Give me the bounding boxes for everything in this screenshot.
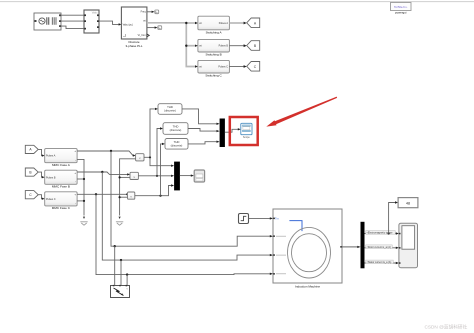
- svg-text:<Stator current is_a (A): <Stator current is_a (A): [367, 261, 392, 264]
- wire tag C to MMC C: [38, 195, 42, 199]
- block Switching C: [198, 60, 230, 73]
- scope3: [399, 223, 418, 268]
- junction breaker tap C: [126, 273, 128, 275]
- wire tag A to MMC A: [38, 149, 42, 155]
- svg-text:Ts=50e-6 s.: Ts=50e-6 s.: [394, 5, 408, 9]
- svg-text:Pulses B: Pulses B: [219, 45, 229, 48]
- wire step to machine Tm: [249, 217, 271, 219]
- junction: [149, 156, 151, 158]
- svg-text:MMC Fase B: MMC Fase B: [52, 185, 70, 189]
- breaker block: [111, 285, 130, 298]
- junction: [119, 176, 121, 178]
- op block Discrete 3-phase PLL U1: [121, 7, 149, 39]
- wire VM A out: [144, 157, 171, 165]
- junction: [159, 195, 161, 197]
- wire MMC A- to ground rail: [77, 159, 84, 215]
- svg-text:wt: wt: [199, 45, 202, 48]
- wire machine out to bus selector: [342, 246, 358, 248]
- wire phase B down and to machine: [102, 172, 270, 260]
- scope2: [194, 170, 204, 182]
- wire VM C out: [135, 186, 172, 196]
- wire VM B minus: [120, 176, 130, 178]
- display block: [398, 198, 418, 208]
- svg-text:<Rotor current is_a (A): <Rotor current is_a (A): [367, 246, 391, 249]
- wire to display: [389, 203, 396, 234]
- svg-text:Pulses B: Pulses B: [46, 176, 56, 179]
- svg-text:-: -: [75, 180, 76, 184]
- svg-text:Switching C: Switching C: [205, 74, 222, 78]
- wire MMC B- join rail: [77, 178, 84, 180]
- from tag C: [25, 191, 38, 199]
- svg-text:wt: wt: [199, 22, 202, 25]
- wire VM A up to THD1: [150, 109, 155, 157]
- wire breaker tap B: [120, 260, 122, 285]
- svg-text:Pulses C: Pulses C: [46, 198, 56, 201]
- wire tag B to MMC B: [38, 172, 42, 177]
- svg-text:(discrete): (discrete): [171, 143, 183, 147]
- block powergui: [391, 3, 412, 11]
- svg-text:Switching A: Switching A: [206, 31, 223, 35]
- svg-text:CSDN @蓝胡科研社: CSDN @蓝胡科研社: [425, 323, 468, 330]
- svg-text:Induction Machine: Induction Machine: [295, 285, 320, 289]
- svg-text:-: -: [75, 158, 76, 162]
- svg-text:Pulses C: Pulses C: [218, 66, 228, 69]
- svg-text:powergui: powergui: [395, 11, 407, 15]
- wire PLL Freq to terminator: [147, 11, 152, 13]
- mux Vabc measurement block: [84, 10, 99, 33]
- wire mux2 to scope2: [180, 175, 191, 177]
- signal label stator current: [366, 260, 394, 264]
- block Induction Machine: [273, 209, 342, 283]
- junction phase A: [110, 150, 112, 152]
- wire Switching B to goto tag: [229, 45, 244, 47]
- voltage measurement VM B: [130, 172, 138, 179]
- svg-text:Tm: Tm: [275, 216, 279, 220]
- THD block 2: [163, 123, 188, 135]
- top window edge line: [0, 1, 474, 3]
- wire source out1 to mux: [61, 14, 84, 16]
- wire bus out3 stator current: [365, 262, 397, 264]
- wire VM B up to THD2: [157, 129, 160, 176]
- block MMC Fase B: [45, 170, 77, 184]
- THD block 3: [165, 139, 188, 150]
- block MMC Fase A: [45, 149, 77, 163]
- wire phase A down and to machine: [111, 151, 270, 246]
- junction phase C: [95, 193, 97, 195]
- junction B- rail: [83, 178, 85, 180]
- wire phase C down and to machine: [96, 194, 270, 274]
- svg-text:3-phase PLL: 3-phase PLL: [125, 44, 142, 48]
- wire phase B from MMC B+: [77, 172, 127, 174]
- svg-text:(discrete): (discrete): [164, 109, 176, 113]
- svg-text:(discrete): (discrete): [170, 128, 182, 132]
- junction phase B: [101, 171, 103, 173]
- junction: [185, 45, 187, 47]
- svg-text:Freq: Freq: [141, 11, 147, 14]
- from tag A: [25, 145, 38, 153]
- wire THD3 to mux1: [188, 142, 217, 144]
- red arrow annotation: [266, 97, 337, 127]
- junction: [185, 22, 187, 24]
- wire phase C from MMC C+: [77, 193, 126, 195]
- voltage measurement VM A: [136, 154, 144, 161]
- svg-text:Scope: Scope: [243, 136, 250, 139]
- wire PLL wt highlighted: [147, 22, 186, 24]
- wire MMC C- join rail: [77, 200, 84, 202]
- wire phase A from MMC A+: [77, 151, 133, 156]
- wire VM C up to THD3: [161, 144, 163, 196]
- svg-text:-: -: [75, 201, 76, 205]
- red highlight box: [230, 117, 258, 145]
- wire breaker tap C: [126, 275, 128, 286]
- wire VM B out: [138, 175, 171, 177]
- THD block 1: [158, 104, 182, 115]
- junction display tap: [388, 232, 390, 234]
- wire Switching A to goto tag: [229, 22, 244, 24]
- wire THD1 to mux1: [182, 109, 217, 124]
- from tag B: [25, 168, 38, 176]
- step block: [239, 214, 249, 224]
- svg-text:Vabc: Vabc: [92, 10, 98, 14]
- wire wt bus vertical to switching blocks: [186, 23, 195, 67]
- wire PLL out3 to terminator: [147, 27, 155, 29]
- ground G2: [116, 217, 123, 226]
- wire source out2 to mux: [61, 20, 84, 22]
- wire THD2 to mux1: [188, 129, 217, 132]
- wire mux1 to scope: [225, 129, 238, 132]
- terminator T2: [158, 26, 162, 30]
- wire VM C minus: [120, 196, 128, 198]
- block three-phase source: [34, 13, 61, 30]
- svg-text:Vabc (pu): Vabc (pu): [123, 23, 133, 26]
- block MMC Fase C: [45, 192, 77, 206]
- junction: [119, 196, 121, 198]
- svg-text:Vt_Con: Vt_Con: [138, 34, 147, 37]
- svg-text:Pulses A: Pulses A: [219, 22, 229, 25]
- mux2 bar: [174, 162, 180, 191]
- goto tag A: [247, 18, 260, 28]
- wire bus out2 rotor current: [365, 247, 397, 249]
- svg-text:Switching B: Switching B: [206, 53, 222, 57]
- block Switching A: [198, 16, 230, 30]
- junction C- rail: [83, 200, 85, 202]
- block Switching B: [198, 39, 230, 52]
- signal label torque: [366, 231, 396, 235]
- junction breaker tap B: [120, 259, 122, 261]
- junction: [156, 175, 158, 177]
- voltage measurement VM C: [128, 192, 135, 199]
- signal label rotor current: [366, 245, 393, 249]
- goto tag B: [247, 41, 260, 51]
- junction breaker tap A: [114, 245, 116, 247]
- svg-text:48: 48: [406, 201, 410, 205]
- svg-text:wt: wt: [199, 66, 202, 69]
- svg-text:MMC Fase A: MMC Fase A: [52, 163, 71, 167]
- goto tag C: [247, 62, 260, 72]
- terminator T1: [155, 10, 159, 14]
- ground G1: [80, 217, 87, 226]
- wire bus out1 torque: [365, 233, 397, 235]
- svg-text:wt: wt: [143, 19, 146, 22]
- svg-text:MMC Fase C: MMC Fase C: [52, 206, 71, 210]
- bus selector bar: [361, 222, 365, 268]
- wire mux to PLL: [99, 21, 119, 24]
- scope1 highlighted blue: [241, 123, 252, 134]
- wire Switching C to goto tag: [229, 66, 244, 68]
- mux1 bar: [220, 119, 225, 148]
- svg-text:Pulses A: Pulses A: [46, 155, 56, 158]
- wire breaker tap A: [114, 246, 116, 285]
- wire source out3 to mux: [61, 26, 84, 29]
- wire VM minus rail: [120, 159, 136, 216]
